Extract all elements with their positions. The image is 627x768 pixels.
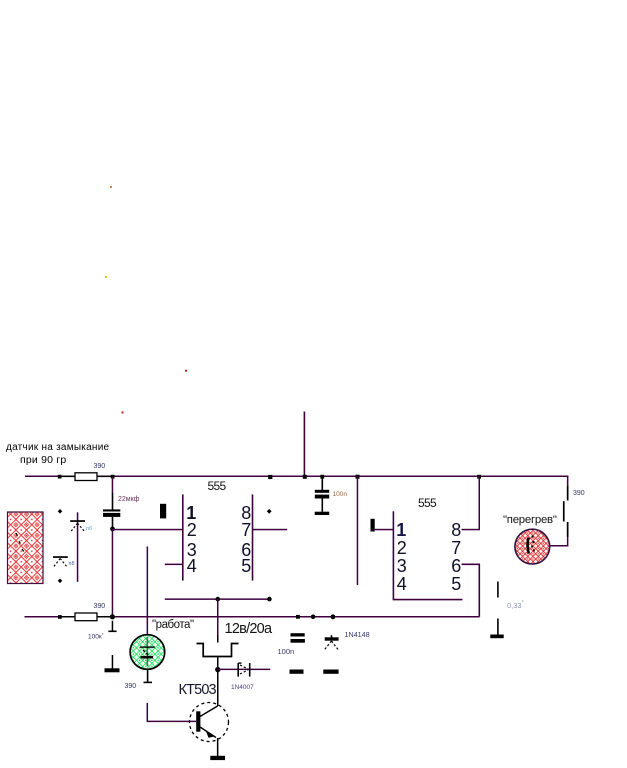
label: thermo K2 t mark [69,562,75,568]
junction dot bottom rail C [296,615,300,619]
wire: C1 junction down to bottom rail [112,529,114,617]
wire: base chain [147,703,196,722]
resistor R3 390 (bottom row) [61,613,112,621]
label: IC2 pin4 [397,575,407,593]
junction dot under C1 [110,527,115,532]
label: IC1 pin7 [241,521,251,539]
label: IC1 pin6 [241,541,251,559]
junction dot bottom rail E (round) [331,614,336,619]
ground under R4 [105,655,120,672]
label: IC2 pin2 [397,539,407,557]
capacitor C1 22mkf leads [103,477,120,528]
wire: diode row horizontal [218,669,270,671]
junction dot top rail A [58,475,62,479]
junction dot bottom rail D (round) [311,615,316,620]
label: sensor caption line2 [20,455,66,466]
label: R4 value 100k [88,633,103,641]
label: IC1 pin2 [187,521,197,539]
wire: IC2 pin8 feed from rail [479,476,481,530]
wire: long vertical antenna line [304,412,306,477]
label: overheat LED caption [503,515,557,526]
resistor R5 390 below work LED [144,669,153,684]
label: thermo K1 t mark [86,527,92,533]
label: IC2 pin3 [397,557,407,575]
transistor Q1 KT503 [190,703,229,742]
resistor R2 390 (right, to overheat LED) [563,476,569,546]
junction dot top rail F (IC2 pin8 feed) [477,475,481,479]
stray speck red2 [122,412,124,414]
diode VD4 1N4148 [325,635,339,650]
label: C2 value 100n [333,492,347,499]
stray speck yellow [105,276,107,278]
junction dot top rail isolated [268,475,272,479]
junction dot bottom rail A [58,615,62,619]
LED VD2 overheat (red hatched circle) [515,529,550,564]
junction dot collector node [215,667,220,672]
relay coil K (cup symbol) [197,644,239,657]
junction dot top rail E (dangling stub) [356,475,360,479]
wire: relay feed vertical [217,599,219,635]
node diamond bottom [58,579,63,584]
label: IC1 pin8 [241,504,251,522]
wire: bottom rail [25,616,480,618]
wire: relay to collector node [217,657,219,669]
label: VD4 name 1N4148 [345,631,370,638]
wire: dangling stub from top rail [357,476,359,585]
capacitor C4 100n (bottom) [291,633,305,643]
node diamond top [58,509,63,514]
node diamond right of IC1 pin8 [267,509,272,514]
thermal contact K2 (lower) [53,556,68,568]
wire: IC1 pin2 [113,529,183,531]
label: C3 value 0,33 [507,601,524,610]
ground bar under VD4 [323,670,338,674]
junction dot top rail C (antenna) [303,475,307,479]
stray speck red [185,370,187,372]
junction dot bottom rail B (round) [110,614,115,619]
wire: IC1 pin3 chain down to work LED [147,547,149,636]
wire: collector vertical [217,670,219,706]
label: IC2 pin8 [451,521,461,539]
ground bar under C4 [290,670,304,674]
capacitor C2 100n (right of IC1) [315,477,330,515]
stray speck orange [110,186,112,188]
label: IC1 pin5 [241,557,251,575]
junction dot mid wire right [267,597,272,602]
label: IC1 name 555 [208,480,226,492]
sensor body (red hatched rectangle) [8,512,44,584]
wire: IC1 pin7 [253,529,287,531]
label: sensor caption line1 [6,443,109,453]
wire: emitter to ground [217,738,219,756]
wire: IC2 pin1 [375,529,394,531]
label: R5 value 390 [125,683,137,690]
label: IC1 pin3 [187,541,197,559]
diode VD3 1N4007 [237,663,250,677]
op IC1 555 right boundary [252,494,254,580]
label: R1 value 390 [94,463,106,470]
resistor R1 390 (top row) [61,473,112,481]
label: C1 value 22mkf [118,496,139,503]
wire: IC2 pin6 to bottom rail [462,564,480,616]
capacitor mark at IC2 pin1 (thick bar) [371,519,375,532]
label: IC2 pin5 [451,575,461,593]
label: IC2 pin1 [396,521,406,539]
LED VD1 work (green hatched circle) [130,635,165,670]
op IC2 555 left boundary with bottom [393,511,462,599]
capacitor C3 0,33 with ground [490,582,503,639]
capacitor mark at IC1 pin1 (thick bar) [160,504,166,519]
label: IC2 pin6 [451,557,461,575]
label: IC1 pin4 [187,557,197,575]
junction dot mid wire left [216,597,221,602]
wire: middle stub wire under IC1 [165,598,271,600]
label: IC1 pin1 [186,504,196,522]
label: work LED caption [152,620,194,632]
label: Q1 name KT503 [179,683,216,698]
wire: top supply rail [25,476,569,478]
resistor R4 100k stub [108,621,116,632]
label: IC2 pin7 [451,539,461,557]
label: VD3 name 1N4007 [231,685,254,692]
op IC1 555 left boundary [182,494,184,580]
label: R3 value 390 [94,603,106,610]
thermal contact K1 (upper, on wire) [70,512,85,582]
label: relay rating 12v/20a [225,622,272,637]
ground under transistor [210,756,225,760]
wire: IC1 pin4 [165,564,183,566]
label: R2 value 390 [573,490,585,497]
label: IC2 name 555 [418,497,436,509]
wire: overheat LED to resistor [550,545,568,547]
junction dot top rail D (cap 100n) [320,475,324,479]
label: C4 value 100n [278,648,295,656]
junction dot top rail B [111,475,115,479]
